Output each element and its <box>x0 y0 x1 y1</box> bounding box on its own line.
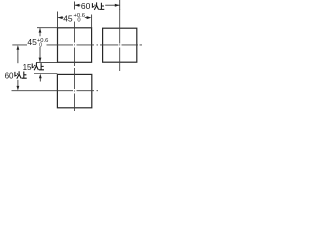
dimension 15以上 left: lower arrow <box>39 74 42 82</box>
label 以上 glyphs (left 60-dim, drawn as paths) <box>15 71 27 79</box>
svg-text:0: 0 <box>39 42 42 48</box>
extension line: square1 top edge extended left (for left 45 dim) <box>37 27 58 29</box>
svg-text:0: 0 <box>77 18 80 24</box>
dimension 60以上 left: vertical line and arrows <box>17 45 20 90</box>
svg-text:45: 45 <box>27 37 37 47</box>
label 以上 glyphs (top, drawn as paths) <box>92 2 104 9</box>
extension line: square1 right edge extended up (for top 45 dim) <box>91 15 93 29</box>
center line horizontal of square 1 (extends left to 60-dim) <box>12 44 98 46</box>
dimension 45+0.6/0 top: line and arrows <box>58 16 92 19</box>
svg-text:60: 60 <box>5 71 14 80</box>
dimension 60以上 top: line and arrows <box>75 4 120 7</box>
extension line: square1 bottom edge extended left (for left 45/15 dims) <box>36 61 58 63</box>
extension line: square3 top edge extended left (for 15 dim) <box>34 73 57 75</box>
cutout square 2 (top-right 45x45 panel cutout) <box>103 28 137 62</box>
svg-text:60: 60 <box>81 1 91 11</box>
extension line: square1 left edge extended up (for top 45 dim) <box>57 12 59 28</box>
cutout square 3 (bottom 45x45 panel cutout) <box>57 74 91 107</box>
svg-text:15: 15 <box>23 63 32 72</box>
dimension 45+0.6/0 left: vertical line and arrows <box>39 28 42 62</box>
label 以上 glyphs (15-dim, drawn as paths) <box>32 63 44 71</box>
center line horizontal of square 3 (extends left to 60-dim) <box>12 90 99 92</box>
extension line: square1 center extended up (top 60-dim left tick) <box>74 2 76 10</box>
extension line: square2 center extended up (top 60-dim right tick) <box>119 0 121 10</box>
center line vertical of square 2 (extends up to top 60-dim tick) <box>119 10 121 72</box>
svg-text:45: 45 <box>63 13 73 23</box>
cutout square 1 (top-left 45x45 panel cutout) <box>58 28 92 63</box>
center line horizontal of square 2 <box>100 44 142 46</box>
center line vertical of squares 1+3 (dash-dot) <box>74 22 76 112</box>
